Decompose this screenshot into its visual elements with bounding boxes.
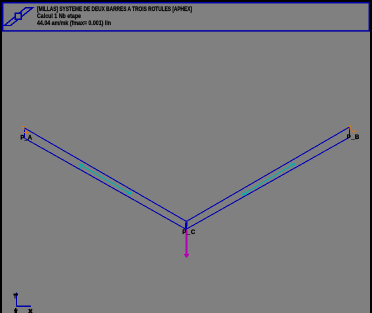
svg-text:P_C: P_C	[182, 230, 196, 236]
svg-text:P_B: P_B	[347, 135, 360, 141]
svg-text:44.04 am/mk (fmax= 0.001) lin: 44.04 am/mk (fmax= 0.001) lin	[37, 20, 111, 27]
svg-text:P_A: P_A	[20, 135, 32, 141]
